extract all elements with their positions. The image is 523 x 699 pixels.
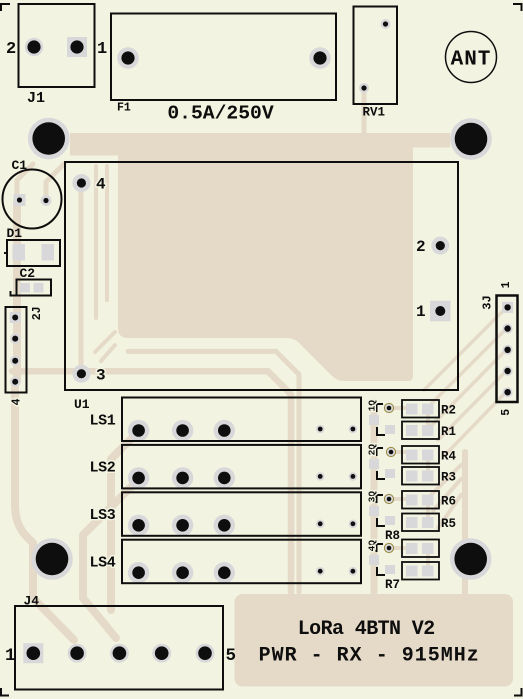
svg-text:PWR - RX - 915MHz: PWR - RX - 915MHz <box>259 645 480 668</box>
svg-text:1: 1 <box>367 405 378 411</box>
capacitor C2 outline <box>17 280 52 296</box>
board corner mark bottom-left <box>1 688 9 696</box>
relay LS2 coil pad 2 <box>172 467 193 488</box>
wire C1 left pad up bend <box>17 164 33 202</box>
relay LS4 contact pad 5 <box>349 567 358 576</box>
wire diagonal Q area C <box>438 495 461 528</box>
connector J2 pad 1 <box>10 312 21 323</box>
transistor Q1 pad base <box>369 415 379 425</box>
svg-text:Q: Q <box>367 491 378 497</box>
relay LS3 contact pad 5 <box>349 520 358 529</box>
svg-text:LoRa 4BTN V2: LoRa 4BTN V2 <box>298 618 435 641</box>
svg-text:1: 1 <box>500 281 513 288</box>
svg-text:C2: C2 <box>20 266 36 281</box>
wire via Q4 to R stub <box>389 546 405 550</box>
wire via Q1 to R stub <box>389 406 405 410</box>
varistor RV1 pad bottom <box>359 83 369 93</box>
wire top ground band <box>70 133 450 148</box>
mounting hole top-right <box>450 118 492 160</box>
board corner mark top-right <box>513 4 522 11</box>
svg-text:4: 4 <box>11 398 24 405</box>
wire right column vertical to bottom pour <box>462 452 468 594</box>
wire C1 to D1 to J2 vertical <box>13 202 21 382</box>
wire fan to J3 pin1 <box>424 308 506 390</box>
wire via Q2 to R stub <box>389 450 405 454</box>
via at transistor Q2 <box>386 447 395 456</box>
capacitor C2 pad 1 <box>20 283 30 293</box>
transistor Q2 pad emitter <box>385 469 395 478</box>
svg-text:4: 4 <box>367 545 378 551</box>
svg-text:R3: R3 <box>441 471 456 485</box>
connector J2 outline <box>6 307 27 393</box>
module U1 pad 4 <box>72 174 90 192</box>
resistor R1 pads <box>406 425 418 436</box>
relay LS1 contact pad 4 <box>316 425 325 434</box>
relay LS3 coil pad 2 <box>172 515 193 536</box>
svg-text:R7: R7 <box>385 578 400 592</box>
transistor Q2 pad base <box>369 459 379 469</box>
relay LS2 outline <box>122 445 361 489</box>
wire J2 through U1 pad3 to bottom pour <box>12 371 291 592</box>
svg-text:2: 2 <box>416 238 426 256</box>
wire C1 right pad to band <box>46 164 64 202</box>
relay LS3 coil pad 1 <box>128 515 149 536</box>
svg-text:Q: Q <box>367 400 378 406</box>
svg-text:J1: J1 <box>27 90 45 107</box>
relay LS1 coil pad 2 <box>172 420 193 441</box>
svg-text:2: 2 <box>367 449 378 455</box>
module U1 pad 2 <box>431 237 449 255</box>
svg-text:R8: R8 <box>385 529 400 543</box>
transistor Q3 bracket top <box>377 495 384 503</box>
connector J3 pad 3 <box>503 345 513 355</box>
capacitor C1 pad 1 <box>14 194 26 206</box>
wire RV1 pad to band <box>362 90 367 135</box>
connector J1 outline <box>19 4 95 87</box>
module U1 pad 1 <box>430 301 451 322</box>
svg-text:R5: R5 <box>441 517 456 531</box>
connector J3 outline <box>497 296 518 403</box>
capacitor C1 pad 2 <box>41 195 52 206</box>
via at transistor Q1 <box>384 403 393 412</box>
relay LS3 contact pad 4 <box>316 520 325 529</box>
relay LS4 outline <box>122 540 361 584</box>
resistor R6 outline <box>402 491 439 509</box>
svg-text:J4: J4 <box>24 594 40 609</box>
wire R pair vertical 3 <box>426 501 430 521</box>
via at transistor Q3 <box>384 494 393 503</box>
svg-text:RV1: RV1 <box>363 106 386 120</box>
resistor R5 outline <box>402 514 439 532</box>
connector J4 pad 4 <box>152 644 171 663</box>
svg-text:5: 5 <box>226 646 237 666</box>
svg-text:R1: R1 <box>441 425 456 439</box>
relay LS4 contact pad 4 <box>316 567 325 576</box>
wire relay LS2 to J4 pin2 <box>83 485 133 638</box>
relay LS2 coil pad 3 <box>214 467 235 488</box>
resistor R6 pads <box>406 495 418 506</box>
resistor R3 pads <box>406 471 418 482</box>
svg-text:D1: D1 <box>7 226 23 241</box>
resistor R8 pads <box>406 543 418 554</box>
wire via Q3 to R stub <box>389 497 405 501</box>
relay LS3 outline <box>122 492 361 536</box>
relay LS4 coil pad 1 <box>128 562 149 583</box>
transistor Q1 pad emitter <box>385 425 395 434</box>
connector J4 pad 1 <box>23 643 43 663</box>
wire U1 pad4 to pad3 vertical <box>79 192 84 364</box>
resistor R4 outline <box>402 446 439 464</box>
svg-text:Q: Q <box>367 444 378 450</box>
svg-text:3: 3 <box>367 496 378 502</box>
wire diagonal near J2 A <box>95 332 115 352</box>
svg-text:ANT: ANT <box>451 48 492 71</box>
diode D1 pad 2 <box>42 244 55 261</box>
wire R pair vertical 4 <box>426 550 430 570</box>
transistor Q2 bracket bottom <box>377 471 385 479</box>
transistor Q4 pad emitter <box>385 565 395 574</box>
connector J2 pad 3 <box>10 356 20 366</box>
connector J4 outline <box>15 606 223 690</box>
wire diagonal Q area A <box>429 465 461 497</box>
svg-text:U1: U1 <box>74 397 90 412</box>
svg-text:5: 5 <box>500 409 513 416</box>
resistor R7 pads <box>406 566 418 577</box>
connector J3 pad 1 <box>502 302 513 313</box>
transistor Q4 bracket top <box>377 544 384 552</box>
svg-text:C1: C1 <box>12 158 28 173</box>
svg-text:LS3: LS3 <box>90 507 116 524</box>
transistor Q3 pad emitter <box>385 516 395 525</box>
relay LS1 outline <box>122 398 361 442</box>
relay LS1 coil pad 3 <box>214 420 235 441</box>
resistor R3 outline <box>402 467 439 485</box>
svg-text:J: J <box>31 306 44 313</box>
svg-text:J: J <box>481 295 495 302</box>
connector J2 pad 2 <box>10 333 20 343</box>
wire inside U1 left vertical B <box>105 166 109 300</box>
svg-text:LS4: LS4 <box>90 555 116 572</box>
board corner mark top-left <box>1 4 10 11</box>
connector J4 pad 3 <box>110 644 129 663</box>
capacitor C1 outline <box>3 170 62 229</box>
connector J2 pad 4 <box>10 377 20 387</box>
svg-text:3: 3 <box>96 367 106 385</box>
svg-text:LS1: LS1 <box>90 412 116 429</box>
resistor R4 pads <box>406 450 418 461</box>
wire relay column vertical <box>371 402 378 592</box>
capacitor C2 pad 2 <box>34 283 44 293</box>
antenna ANT circle <box>446 32 497 83</box>
transistor Q1 bracket top <box>377 404 384 412</box>
resistor R1 outline <box>402 422 439 440</box>
relay LS3 coil pad 3 <box>214 515 235 536</box>
relay LS4 coil pad 2 <box>172 562 193 583</box>
copper pour bottom-right with board text <box>235 594 514 687</box>
wire diagonal Q area B <box>433 479 461 511</box>
svg-text:R6: R6 <box>441 495 456 509</box>
wire J2 pin4 exit to J4 pin1 <box>15 382 74 640</box>
resistor R8 outline <box>402 540 439 558</box>
relay LS4 coil pad 3 <box>214 562 235 583</box>
fuse F1 pad right <box>309 47 331 69</box>
resistor R2 pads <box>406 404 418 415</box>
transistor Q4 bracket bottom <box>377 567 385 575</box>
svg-text:0.5A/250V: 0.5A/250V <box>167 103 274 125</box>
wire pour bottom bus A <box>128 351 299 592</box>
relay LS1 coil pad 1 <box>128 420 149 441</box>
transistor Q3 bracket bottom <box>377 518 385 526</box>
via at transistor Q4 <box>384 543 393 552</box>
svg-text:F1: F1 <box>117 102 131 115</box>
svg-text:4: 4 <box>96 176 106 194</box>
relay LS2 contact pad 5 <box>349 472 358 481</box>
connector J3 pad 5 <box>503 387 513 397</box>
module U1 outline <box>65 162 458 390</box>
wire fan to J3 pin5 <box>445 392 506 455</box>
mounting hole bottom-right <box>450 538 492 580</box>
diode D1 pin tick <box>4 252 7 254</box>
svg-text:1: 1 <box>5 646 16 666</box>
mounting hole top-left <box>28 118 70 160</box>
svg-text:3: 3 <box>481 302 495 309</box>
varistor RV1 outline <box>354 7 398 105</box>
svg-text:R4: R4 <box>441 450 457 464</box>
svg-text:R2: R2 <box>441 404 456 418</box>
connector J1 pad 1 <box>67 37 87 57</box>
wire top band lower part <box>70 133 413 156</box>
wire fan to J3 pin2 <box>424 329 506 411</box>
fuse F1 outline <box>111 14 336 101</box>
wire R pair vertical 1 <box>426 410 430 430</box>
transistor Q2 bracket top <box>377 448 384 456</box>
svg-text:1: 1 <box>416 303 426 321</box>
wire inside U1 left vertical A <box>94 166 98 318</box>
resistor R7 outline <box>402 562 439 580</box>
diode D1 outline <box>7 240 60 266</box>
capacitor C2 pin tick <box>11 291 17 296</box>
module U1 pad 3 <box>72 365 90 383</box>
relay LS2 contact pad 4 <box>316 472 325 481</box>
wire fan to J3 pin4 <box>438 371 506 440</box>
wire diagonal near J2 B <box>101 345 115 361</box>
connector J4 pad 2 <box>68 644 87 663</box>
varistor RV1 pad top <box>381 19 391 29</box>
connector J1 pad 2 <box>25 38 43 56</box>
relay LS2 coil pad 1 <box>128 467 149 488</box>
wire R pair vertical 2 <box>426 454 430 474</box>
transistor Q1 bracket bottom <box>377 427 385 435</box>
svg-text:Q: Q <box>367 540 378 546</box>
transistor Q3 pad base <box>369 506 379 516</box>
wire fan to J3 pin3 <box>431 350 506 426</box>
connector J3 pad 2 <box>503 324 513 334</box>
board corner mark bottom-right <box>514 688 522 696</box>
relay LS1 contact pad 5 <box>349 425 358 434</box>
transistor Q4 pad base <box>369 555 379 565</box>
diode D1 pad 1 <box>13 244 26 261</box>
svg-text:2: 2 <box>31 313 44 320</box>
mounting hole bottom-left <box>31 538 73 580</box>
svg-text:LS2: LS2 <box>90 460 116 477</box>
copper pour inside U1 <box>118 133 413 381</box>
fuse F1 pad left <box>117 47 139 69</box>
connector J3 pad 4 <box>503 366 513 376</box>
svg-text:1: 1 <box>97 40 107 59</box>
resistor R2 outline <box>402 400 439 418</box>
svg-text:2: 2 <box>6 40 16 59</box>
wire relay LS1 to J4 pin3 <box>111 437 133 610</box>
resistor R5 pads <box>406 517 418 528</box>
connector J4 pad 5 <box>196 644 215 663</box>
